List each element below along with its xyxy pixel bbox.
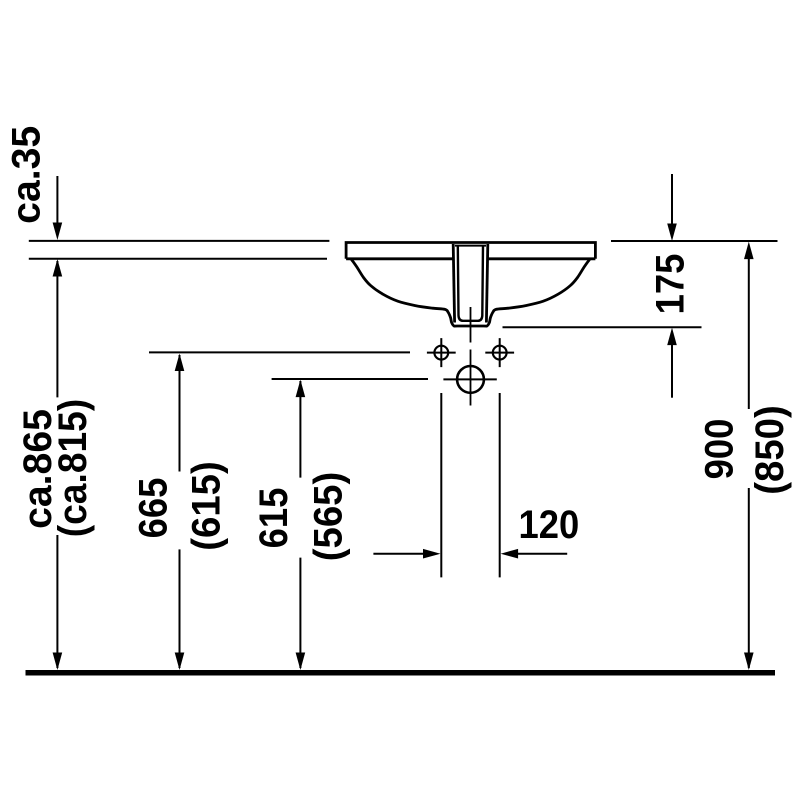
dimension 615 lower shaft — [299, 558, 301, 668]
extension line right (120 dim) — [499, 393, 501, 577]
dimension ca.865 upper shaft — [56, 261, 58, 397]
arrow right (120) — [423, 549, 441, 559]
label 900 — [697, 419, 742, 480]
svg-text:900: 900 — [697, 419, 742, 480]
dimension 900 upper shaft — [748, 258, 750, 410]
dimension 120 left shaft — [373, 553, 424, 555]
dimension 665 upper shaft — [179, 355, 181, 472]
dimension 175 lower shaft — [671, 344, 673, 398]
tap hole left — [434, 346, 448, 360]
dimension 120 right shaft — [517, 553, 568, 555]
dimension ca.865 lower shaft — [56, 535, 58, 668]
label (850) — [748, 405, 792, 495]
label 615 — [251, 488, 296, 549]
drain inner channel — [458, 245, 483, 321]
reference line 665 level — [149, 351, 410, 353]
reference line 615 level — [272, 378, 428, 380]
arrow down to floor (665) — [175, 653, 185, 671]
extension line left (120 dim) — [440, 393, 442, 577]
dimension 900 lower shaft — [748, 488, 750, 668]
svg-text:(850): (850) — [748, 405, 792, 495]
svg-text:(615): (615) — [185, 461, 229, 551]
drain outer wall left — [453, 244, 454, 323]
drain outer wall right — [486, 244, 487, 323]
svg-text:175: 175 — [648, 254, 693, 315]
svg-text:(ca.815): (ca.815) — [51, 399, 96, 538]
svg-text:(565): (565) — [307, 472, 351, 562]
countertop reference line right — [611, 240, 778, 242]
dimension 665 lower shaft — [179, 549, 181, 668]
dimension 615 upper shaft — [299, 381, 301, 478]
arrow up to lower line (175) — [667, 328, 677, 346]
tap hole right crosshair — [485, 338, 514, 367]
washbasin rim — [346, 243, 595, 259]
tap hole right — [493, 346, 507, 360]
countertop line left bottom — [29, 258, 327, 260]
arrow up 615 — [296, 380, 306, 398]
label (615) — [185, 461, 229, 551]
label ca.35 — [4, 126, 48, 224]
dimension 175 upper shaft — [671, 174, 673, 224]
svg-text:120: 120 — [519, 503, 580, 548]
centerline of basin — [470, 307, 472, 406]
drain inner top edge — [455, 245, 486, 247]
drain outlet circle — [457, 366, 484, 393]
tap hole left crosshair — [427, 338, 456, 367]
arrow down to rim level (175) — [667, 224, 677, 242]
label 120 — [519, 503, 580, 548]
arrow down to floor (615) — [296, 653, 306, 671]
arrow down to floor (900) — [744, 653, 754, 671]
arrow down to floor (ca.865) — [53, 653, 63, 671]
reference line 175 lower level — [503, 326, 702, 328]
svg-text:ca.35: ca.35 — [4, 126, 48, 224]
label 665 — [131, 478, 176, 539]
label (565) — [307, 472, 351, 562]
label (ca.815) — [51, 399, 96, 538]
svg-text:615: 615 — [251, 488, 296, 549]
drain outlet horizontal crosshair — [443, 378, 496, 380]
arrow up 665 — [175, 354, 185, 372]
arrow left (120) — [501, 549, 518, 559]
floor line — [26, 670, 776, 676]
arrow up to counter bottom — [53, 259, 63, 277]
arrow up 900 — [744, 242, 754, 260]
arrow down to counter top — [53, 223, 63, 241]
dimension ca.35 upper shaft — [56, 176, 58, 224]
countertop line left top — [29, 240, 330, 242]
label 175 — [648, 254, 693, 315]
washbasin bowl outline — [351, 259, 589, 326]
label ca.865 — [16, 409, 60, 529]
svg-text:665: 665 — [131, 478, 176, 539]
